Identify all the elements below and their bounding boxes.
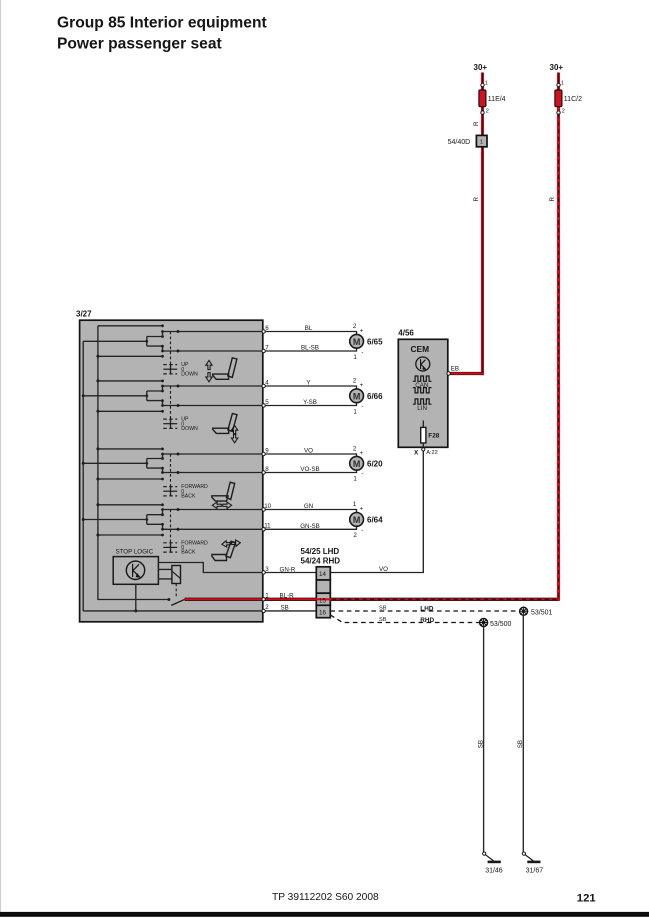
svg-text:1: 1 [485, 80, 488, 86]
wire SB from bus B to pin 2 and connector 16 [83, 610, 316, 612]
svg-text:SB: SB [379, 606, 387, 612]
motion arrow (up/down) [231, 425, 237, 434]
bottom black bar [0, 912, 649, 917]
svg-text:30+: 30+ [474, 63, 488, 72]
switch 3 output wire pin 9 [163, 453, 264, 455]
svg-text:BL-SB: BL-SB [301, 345, 319, 352]
svg-text:1: 1 [353, 475, 357, 482]
motor 6/20 [350, 456, 364, 470]
svg-text:SB: SB [477, 740, 484, 748]
connector cell 16 [316, 605, 330, 617]
connector cell 14 [316, 567, 330, 580]
switch 3 feed wire B [98, 478, 163, 480]
switch 3 pole wire [83, 462, 147, 464]
svg-text:LHD: LHD [420, 606, 434, 613]
pin 1 of fuse 11E/4 [481, 83, 484, 86]
switch 2 detent UP-0-DOWN [170, 419, 172, 430]
svg-text:M: M [353, 459, 361, 469]
seat icon (slide) [226, 482, 234, 499]
ground stud 53/501 [520, 607, 553, 616]
seat icon (front height) [228, 358, 237, 378]
svg-text:54/24 RHD: 54/24 RHD [301, 556, 341, 565]
pin 10 [262, 508, 265, 511]
svg-text:+: + [360, 505, 364, 512]
svg-text:2: 2 [353, 377, 357, 384]
svg-text:A:22: A:22 [426, 450, 438, 456]
wire VO to motor 6/20 [265, 454, 356, 457]
svg-text:+: + [360, 382, 364, 389]
svg-text:2: 2 [562, 109, 565, 115]
connector cell 15 [316, 593, 330, 605]
ECU symbol (circle K) in stop logic [126, 561, 144, 579]
switch 1 feed wire A [98, 325, 163, 327]
svg-text:Group 85 Interior equipment: Group 85 Interior equipment [57, 14, 267, 31]
svg-text:5: 5 [265, 399, 269, 406]
svg-text:10: 10 [264, 503, 271, 510]
svg-text:1: 1 [265, 593, 269, 600]
svg-text:8: 8 [265, 466, 269, 473]
switch 1 output wire pin 6 [163, 331, 264, 333]
switch 2 bridge contact [147, 386, 163, 406]
wire GN-R from stop logic to pin 3 [158, 563, 263, 573]
svg-text:FORWARD: FORWARD [181, 484, 208, 490]
pin 2 [262, 609, 265, 612]
page left edge line [0, 0, 2, 912]
wire GN to motor 6/64 [265, 510, 356, 513]
svg-text:-: - [361, 470, 363, 477]
switch 4 detent FORWARD-0-BACK [170, 542, 172, 553]
switch pivot [167, 598, 170, 601]
svg-text:+: + [360, 450, 364, 457]
svg-text:4: 4 [265, 379, 269, 386]
fuse 11E/4 [479, 90, 486, 107]
svg-text:DOWN: DOWN [181, 372, 198, 378]
svg-text:BACK: BACK [181, 494, 196, 500]
svg-text:6/64: 6/64 [367, 515, 383, 524]
svg-text:6/20: 6/20 [367, 459, 383, 468]
svg-text:F28: F28 [428, 432, 439, 439]
switch 2 pole wire [83, 395, 147, 397]
svg-text:TP 39112202 S60 2008: TP 39112202 S60 2008 [272, 892, 379, 903]
motor 6/65 [350, 334, 364, 348]
svg-text:2: 2 [265, 604, 269, 611]
svg-text:GN: GN [304, 503, 313, 510]
bus B (common bus to poles) [82, 341, 84, 611]
pin EB [447, 372, 450, 375]
pin 2 of fuse 11C/2 [557, 111, 560, 114]
pin 7 [262, 349, 265, 352]
switch 4 feed wire A [98, 504, 163, 506]
pin 6 [262, 330, 265, 333]
svg-text:R: R [473, 197, 480, 202]
switch 4 bridge contact [147, 510, 163, 530]
svg-text:Y-SB: Y-SB [303, 399, 317, 406]
svg-text:53/500: 53/500 [490, 621, 512, 628]
motion arrow (tilt) [222, 539, 241, 547]
svg-text:VO: VO [379, 566, 388, 573]
red wire across cell 15 [315, 598, 331, 600]
actuator link (dashed) from driver to switch [175, 584, 177, 597]
pin 3 [262, 571, 265, 574]
switch 4 actuator link (dashed) [170, 510, 172, 543]
stop logic box [113, 557, 158, 585]
svg-text:6/66: 6/66 [367, 392, 383, 401]
svg-text:BL: BL [305, 325, 313, 332]
pin 9 [262, 452, 265, 455]
svg-text:1: 1 [353, 354, 357, 361]
switch blade [171, 599, 185, 605]
svg-text:LIN: LIN [417, 405, 427, 412]
svg-text:11C/2: 11C/2 [564, 96, 582, 103]
svg-text:30+: 30+ [550, 63, 564, 72]
wire BL-R (red) from switch blade to feed corner [185, 598, 559, 601]
switch 3 feed wire A [98, 448, 163, 450]
svg-text:FORWARD: FORWARD [181, 540, 208, 546]
svg-text:6: 6 [265, 325, 269, 332]
ground 31/67 [522, 852, 543, 874]
svg-text:-: - [361, 527, 363, 534]
motion arrow (up/down) [206, 360, 212, 369]
pin 1 of fuse 11C/2 [557, 83, 560, 86]
ECU symbol (circle K) [416, 357, 430, 371]
pin 2 of fuse 11E/4 [481, 111, 484, 114]
svg-text:R: R [549, 197, 556, 202]
svg-text:M: M [353, 391, 361, 401]
switch 3 output wire pin 8 [163, 472, 264, 474]
svg-text:Y: Y [306, 380, 310, 387]
ground 31/46 [483, 852, 503, 874]
svg-text:M: M [353, 337, 361, 347]
wire SB (LHD) dashed to ground stud 53/501 [330, 610, 519, 612]
switch 2 feed wire A [98, 380, 163, 382]
wire BL-SB to motor 6/65 [265, 348, 356, 351]
switch 1 pole wire [83, 340, 147, 342]
motor 6/64 [350, 513, 364, 527]
svg-text:3/27: 3/27 [76, 310, 92, 319]
svg-text:54/25 LHD: 54/25 LHD [301, 547, 340, 556]
LIN symbol [413, 399, 432, 404]
switch 3 actuator link (dashed) [170, 454, 172, 487]
svg-text:BACK: BACK [181, 550, 196, 556]
svg-text:R: R [473, 121, 480, 126]
wire GN-SB to motor 6/64 [265, 526, 356, 529]
CAN symbol [413, 376, 432, 381]
svg-text:15: 15 [319, 598, 326, 605]
svg-text:VO-SB: VO-SB [300, 466, 319, 473]
svg-text:2: 2 [353, 323, 357, 330]
svg-text:11E/4: 11E/4 [488, 96, 506, 103]
switch 3 detent FORWARD-0-BACK [170, 486, 172, 497]
driver (relay) box [172, 566, 181, 584]
svg-text:EB: EB [451, 365, 459, 372]
svg-text:BL-R: BL-R [280, 593, 295, 600]
pin 11 [262, 528, 265, 531]
switch 1 bridge contact [147, 332, 163, 352]
svg-text:4/56: 4/56 [398, 328, 414, 337]
pin 1 [262, 598, 265, 601]
switch 1 actuator link (dashed) [170, 332, 172, 365]
connector blank cell [316, 580, 330, 593]
switch 1 feed wire B [98, 355, 163, 357]
wire VO-SB to motor 6/20 [265, 470, 356, 473]
wire Y-SB to motor 6/66 [265, 403, 356, 406]
seat icon (rear height) [228, 414, 237, 432]
wire GN-R pin 3 to connector 14 [265, 572, 316, 574]
svg-text:121: 121 [577, 893, 596, 905]
svg-text:+: + [360, 327, 364, 334]
svg-text:SB: SB [281, 604, 289, 611]
switch 4 feed wire B [98, 534, 163, 536]
pin 5 [262, 404, 265, 407]
svg-text:16: 16 [319, 610, 326, 617]
svg-text:9: 9 [265, 447, 269, 454]
wire R vertical right feed (red, black dashed core) [557, 73, 560, 601]
svg-text:CEM: CEM [411, 344, 430, 354]
svg-text:1: 1 [353, 501, 357, 508]
switch 2 actuator link (dashed) [170, 386, 172, 419]
stop logic ground link [135, 584, 137, 611]
wire R vertical from 30+ to CEM EB (red with black core) [481, 73, 484, 376]
wire SB down from 53/500 [483, 626, 485, 853]
motor 6/66 [350, 389, 364, 403]
wire Y to motor 6/66 [265, 386, 356, 389]
svg-text:53/501: 53/501 [531, 609, 553, 616]
svg-text:SB: SB [379, 617, 387, 623]
fuse F28 [422, 421, 424, 429]
wire VO from CEM A:22 down to connector 14 [330, 451, 423, 573]
svg-text:M: M [353, 515, 361, 525]
svg-text:X: X [414, 449, 419, 456]
svg-text:STOP LOGIC: STOP LOGIC [116, 548, 154, 555]
svg-text:-: - [361, 403, 363, 410]
wire SB (RHD) dashed to ground stud 53/500 [330, 615, 479, 623]
switch 2 feed wire B [98, 410, 163, 412]
svg-text:VO: VO [304, 448, 313, 455]
motion arrow (left/right) [212, 502, 221, 508]
svg-text:SB: SB [517, 740, 524, 748]
pin 4 [262, 384, 265, 387]
bus A (supply bus to switch contacts) [98, 326, 169, 600]
ground stud 53/500 [480, 619, 512, 628]
switch 3 bridge contact [147, 454, 163, 473]
pin 8 [262, 471, 265, 474]
svg-text:GN-SB: GN-SB [300, 523, 320, 530]
svg-text:GN-R: GN-R [280, 566, 296, 573]
fuse 11C/2 [555, 90, 562, 107]
svg-text:14: 14 [319, 571, 326, 578]
links stop logic to driver [158, 569, 172, 579]
control module 4/56 box [398, 339, 448, 447]
svg-text:-: - [361, 349, 363, 356]
svg-text:11: 11 [264, 523, 271, 530]
svg-text:2: 2 [353, 532, 357, 539]
switch 1 output wire pin 7 [163, 350, 264, 352]
svg-text:RHD: RHD [420, 617, 434, 624]
svg-text:1: 1 [353, 408, 357, 415]
svg-text:54/40D: 54/40D [448, 139, 471, 146]
wire BL to motor 6/65 [265, 332, 356, 335]
svg-text:1: 1 [480, 140, 483, 146]
switch 2 output wire pin 4 [163, 385, 264, 387]
switch 4 output wire pin 11 [163, 528, 264, 530]
switch 2 output wire pin 5 [163, 405, 264, 407]
switch module 3/27 box [80, 320, 263, 622]
svg-text:7: 7 [265, 344, 269, 351]
switch 4 output wire pin 10 [163, 509, 264, 511]
switch 4 pole wire [83, 519, 147, 521]
svg-text:DOWN: DOWN [181, 426, 198, 432]
wire EB horizontal from vertical feed to CEM pin [449, 372, 484, 375]
svg-text:2: 2 [486, 109, 489, 115]
svg-text:3: 3 [265, 566, 269, 573]
svg-text:31/46: 31/46 [485, 867, 503, 874]
svg-text:2: 2 [353, 445, 357, 452]
svg-text:1: 1 [561, 80, 564, 86]
svg-text:6/65: 6/65 [367, 337, 383, 346]
svg-text:31/67: 31/67 [526, 867, 544, 874]
switch 1 detent UP-0-DOWN [170, 364, 172, 375]
seat icon (backrest tilt) [226, 541, 236, 557]
svg-text:Power passenger seat: Power passenger seat [57, 35, 222, 52]
wire SB down from 53/501 [522, 614, 524, 852]
